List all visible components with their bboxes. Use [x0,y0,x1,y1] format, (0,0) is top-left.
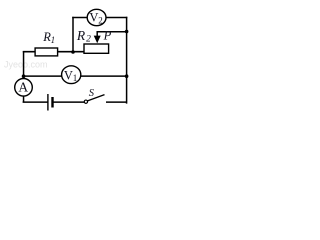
junction node A-V1 [22,74,26,78]
rheostat slider vertical [96,31,98,37]
wire battery to switch [53,101,85,103]
svg-text:P: P [103,28,112,42]
wire left vertical [23,51,25,79]
battery short thick plate [51,97,53,108]
svg-text:R: R [76,28,86,43]
resistor R1 box [35,48,58,56]
voltmeter V1 circle [62,66,81,84]
switch pivot circle [84,100,87,103]
svg-text:A: A [18,80,28,95]
wire switch to bottom right corner [106,101,127,103]
wire V2 left vertical [72,17,74,53]
rheostat slider arrowhead [94,36,101,44]
junction node main-V2 [71,50,75,54]
switch lever [88,95,105,101]
junction node slider-right [125,30,129,34]
svg-text:2: 2 [86,34,91,44]
wire voltmeter V1 row horizontal [24,75,127,77]
ammeter A circle [15,79,33,97]
wire main middle horizontal [23,51,85,53]
wire rheostat slider horizontal [97,31,127,33]
svg-text:1: 1 [51,35,56,45]
svg-text:V: V [89,11,98,25]
svg-text:Jyeoo.com: Jyeoo.com [4,60,48,70]
battery long plate [47,94,49,111]
wire top row V2 horizontal [72,17,127,19]
svg-text:2: 2 [98,16,103,26]
svg-text:1: 1 [73,73,78,83]
svg-text:S: S [89,88,95,99]
wire bottom left to battery [23,101,48,103]
resistor R2 box (rheostat) [84,44,109,53]
voltmeter V2 circle [87,9,106,25]
wire ammeter bottom stub [23,95,25,102]
junction node V1-right [125,74,129,78]
svg-text:V: V [64,68,73,82]
wire right vertical [125,17,128,103]
